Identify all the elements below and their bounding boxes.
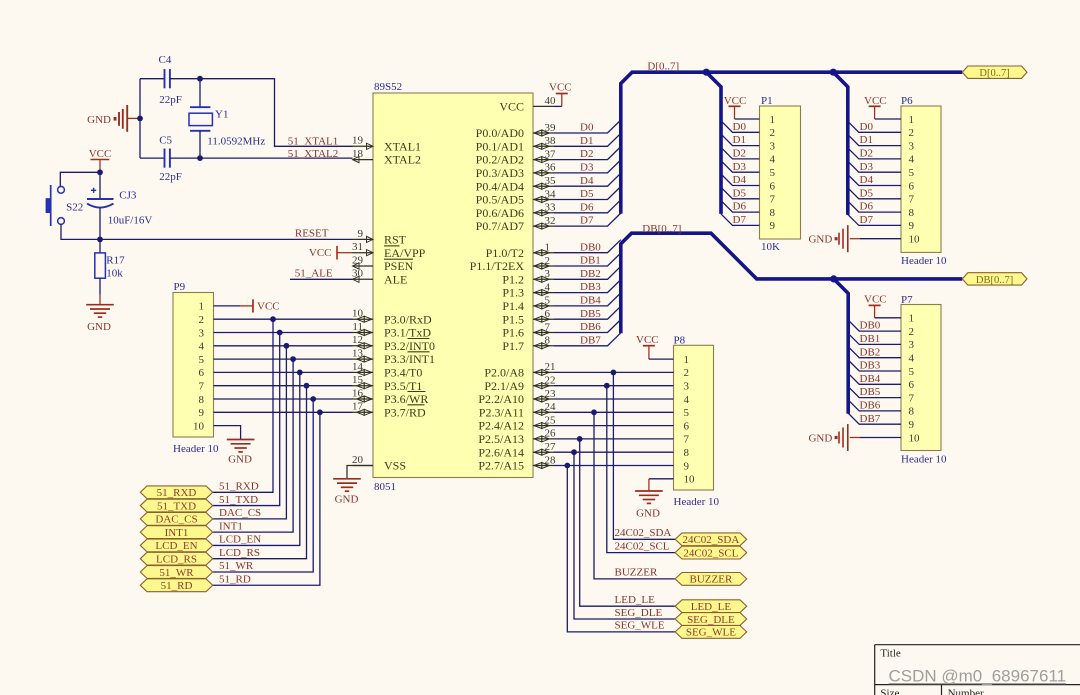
svg-text:DB4: DB4	[580, 295, 601, 307]
pin 6 P1.5	[502, 308, 554, 326]
svg-text:P2.3/A11: P2.3/A11	[479, 405, 524, 419]
bus DB[0..7] main	[621, 233, 963, 333]
svg-text:39: 39	[545, 122, 557, 134]
svg-text:D7: D7	[580, 215, 594, 227]
port flag LCD_RS	[140, 552, 212, 565]
svg-text:6: 6	[909, 379, 915, 391]
svg-text:7: 7	[770, 194, 776, 206]
svg-text:22: 22	[545, 375, 556, 387]
wire D0 bus entry to P1 pin 2	[721, 121, 760, 133]
junction VCC/CJ3/S22	[97, 169, 103, 175]
wire P7 pin 10 to ground	[860, 437, 901, 439]
svg-text:27: 27	[545, 441, 557, 453]
svg-text:8: 8	[545, 335, 551, 347]
connector P9 body	[173, 281, 219, 455]
svg-text:22pF: 22pF	[159, 171, 182, 183]
svg-text:S22: S22	[66, 202, 83, 214]
svg-text:INT1: INT1	[219, 520, 243, 532]
wire P9 pin 7 to MCU P3.5	[214, 385, 353, 387]
svg-text:D2: D2	[733, 148, 746, 160]
svg-text:4: 4	[909, 154, 915, 166]
wire D5 bus entry to P1 pin 7	[721, 187, 760, 199]
svg-text:9: 9	[909, 220, 915, 232]
pin 33 P0.6/AD6	[476, 202, 556, 220]
svg-text:RST: RST	[384, 233, 407, 247]
svg-text:12: 12	[352, 334, 363, 346]
pin 40 VCC	[499, 95, 556, 113]
svg-text:P3.3/INT1: P3.3/INT1	[384, 352, 435, 366]
svg-text:3: 3	[909, 339, 915, 351]
wire D4 from MCU P0.4 to bus	[554, 173, 621, 186]
svg-text:2: 2	[909, 127, 915, 139]
wire D7 from MCU P0.7 to bus	[554, 213, 621, 226]
wire D6 bus entry to P1 pin 8	[721, 201, 760, 213]
svg-text:6: 6	[545, 308, 551, 320]
capacitor CJ3	[87, 172, 152, 239]
capacitor C5	[140, 135, 182, 184]
svg-text:SEG_DLE: SEG_DLE	[687, 614, 735, 626]
svg-text:8051: 8051	[374, 481, 396, 493]
bus branch to P7	[834, 279, 849, 414]
svg-text:P2.6/A14: P2.6/A14	[478, 445, 524, 459]
svg-text:P0.7/AD7: P0.7/AD7	[476, 219, 524, 233]
svg-text:P0.4/AD4: P0.4/AD4	[476, 179, 524, 193]
svg-text:29: 29	[352, 254, 364, 266]
svg-text:DB6: DB6	[860, 400, 881, 412]
wire P9 pin 4 to MCU P3.2	[214, 345, 353, 347]
wire DB4 bus entry to P7 pin 6	[848, 373, 901, 384]
svg-text:P3.1/TxD: P3.1/TxD	[384, 326, 431, 340]
svg-text:10k: 10k	[106, 267, 123, 279]
wire P9 pin 2 to MCU P3.0	[214, 318, 353, 320]
svg-text:P1: P1	[761, 95, 773, 107]
svg-text:D7: D7	[733, 214, 747, 226]
svg-text:1: 1	[909, 114, 915, 126]
svg-text:3: 3	[909, 140, 915, 152]
svg-text:4: 4	[770, 154, 776, 166]
wire LCD_RS vertical	[213, 386, 307, 559]
pin 3 P1.2	[502, 268, 554, 286]
svg-text:P9: P9	[174, 281, 186, 293]
svg-text:4: 4	[199, 341, 205, 353]
port flag DAC_CS	[140, 512, 212, 525]
svg-text:DAC_CS: DAC_CS	[219, 507, 261, 519]
svg-text:35: 35	[545, 175, 557, 187]
svg-text:P1.0/T2: P1.0/T2	[486, 246, 524, 260]
svg-text:2: 2	[909, 326, 915, 338]
svg-text:21: 21	[545, 361, 556, 373]
svg-text:P3.4/T0: P3.4/T0	[384, 366, 422, 380]
wire D1 bus entry to P1 pin 3	[721, 134, 760, 146]
svg-text:11: 11	[352, 321, 363, 333]
svg-text:VCC: VCC	[499, 100, 524, 114]
wire LED_LE vertical	[580, 439, 675, 606]
svg-text:5: 5	[909, 167, 915, 179]
svg-text:DB2: DB2	[580, 268, 601, 280]
pin 2 P1.1/T2EX	[470, 255, 554, 273]
svg-text:38: 38	[545, 135, 557, 147]
wire 51_RD vertical	[213, 412, 320, 585]
wire D0 from MCU P0.0 to bus	[554, 120, 621, 133]
power VCC at P9 pin 1	[240, 299, 280, 312]
svg-text:24C02_SDA: 24C02_SDA	[615, 527, 672, 539]
svg-text:D7: D7	[860, 214, 874, 226]
svg-text:GND: GND	[808, 433, 832, 445]
svg-text:P0.1/AD1: P0.1/AD1	[476, 139, 524, 153]
wire XTAL2 from C5 to MCU	[170, 157, 353, 159]
svg-text:D5: D5	[860, 187, 874, 199]
svg-text:32: 32	[545, 215, 556, 227]
svg-text:DB7: DB7	[860, 413, 881, 425]
wire D3 bus entry to P6 pin 5	[848, 161, 901, 172]
pin 14 P3.4/T0	[352, 361, 422, 380]
power VCC at P1 pin 1	[724, 95, 760, 119]
svg-text:DB7: DB7	[580, 334, 601, 346]
svg-text:VCC: VCC	[257, 301, 280, 313]
pin 9 RST	[353, 228, 407, 247]
pin 16 P3.6/WR	[352, 387, 428, 406]
pin 36 P0.3/AD3	[476, 162, 556, 180]
svg-text:51_TXD: 51_TXD	[157, 500, 196, 512]
svg-text:C4: C4	[159, 54, 172, 66]
svg-text:P1.4: P1.4	[502, 299, 524, 313]
svg-text:51_TXD: 51_TXD	[219, 494, 258, 506]
junction P2 row to SEG_DLE	[571, 449, 577, 455]
svg-text:D1: D1	[860, 134, 873, 146]
wire D7 bus entry to P1 pin 9	[721, 214, 760, 226]
svg-text:D2: D2	[580, 148, 593, 160]
wire INT1 vertical	[213, 359, 293, 532]
pin 24 P2.3/A11	[479, 401, 556, 419]
svg-text:XTAL1: XTAL1	[384, 139, 421, 153]
svg-text:VSS: VSS	[384, 459, 406, 473]
junction P3.3 to INT1	[290, 356, 296, 362]
wire VCC junction to switch	[60, 172, 100, 187]
wire D7 bus entry to P6 pin 9	[848, 214, 901, 225]
svg-text:P0.5/AD5: P0.5/AD5	[476, 193, 524, 207]
wire D1 bus entry to P6 pin 3	[848, 135, 901, 146]
svg-text:GND: GND	[87, 321, 111, 333]
svg-text:8: 8	[684, 447, 690, 459]
svg-text:D0: D0	[580, 122, 594, 134]
svg-text:7: 7	[545, 321, 551, 333]
wire D5 bus entry to P6 pin 7	[848, 188, 901, 199]
junction C5/Y1 bottom	[197, 155, 203, 161]
wire DB0 bus entry to P7 pin 2	[848, 320, 901, 331]
ground GND at P6 pin 10	[808, 225, 860, 252]
svg-text:GND: GND	[87, 114, 111, 126]
overbar EA	[384, 245, 400, 247]
port flag 51_WR	[140, 566, 212, 579]
svg-text:LCD_RS: LCD_RS	[156, 554, 197, 566]
pin 7 P1.6	[502, 321, 554, 339]
junction P3.0 to 51_RXD	[270, 316, 276, 322]
svg-text:P1.7: P1.7	[502, 339, 524, 353]
wire DB1 from MCU P1.1 to bus	[554, 253, 621, 266]
wire P9 pin 1 to VCC	[214, 305, 241, 307]
svg-text:23: 23	[545, 388, 557, 400]
wire DB0 from MCU P1.0 to bus	[554, 240, 621, 253]
op-amp U1 89S52 MCU body	[373, 93, 533, 478]
power VCC at P8 pin 1	[636, 334, 674, 359]
ground GND below R17	[86, 295, 114, 333]
svg-text:CSDN @m0_68967611: CSDN @m0_68967611	[889, 667, 1067, 686]
svg-text:PSEN: PSEN	[384, 259, 414, 273]
svg-text:Number: Number	[948, 687, 984, 695]
svg-text:DB0: DB0	[860, 320, 881, 332]
wire DB6 from MCU P1.6 to bus	[554, 320, 621, 333]
wire 51_TXD vertical	[213, 333, 280, 506]
svg-text:P2.4/A12: P2.4/A12	[478, 419, 524, 433]
svg-text:SEG_WLE: SEG_WLE	[686, 627, 736, 639]
wire P2.3 to P8 pin 5	[554, 411, 674, 413]
connector P7 body	[901, 294, 947, 466]
pin 18 XTAL2	[352, 148, 421, 167]
junction P2 row to SEG_WLE	[564, 463, 570, 469]
pin 32 P0.7/AD7	[476, 215, 556, 233]
svg-text:10: 10	[909, 234, 921, 246]
wire P9 pin 5 to MCU P3.3	[214, 358, 353, 360]
port flag 24C02_SDA	[675, 533, 747, 546]
svg-text:Header 10: Header 10	[901, 255, 947, 267]
wire P9 pin 3 to MCU P3.1	[214, 332, 353, 334]
svg-text:51_RD: 51_RD	[219, 573, 251, 585]
svg-text:7: 7	[684, 434, 690, 446]
wire P2.2 to P8 pin 4	[554, 398, 674, 400]
svg-text:P1.1/T2EX: P1.1/T2EX	[470, 259, 525, 273]
overbar RD	[408, 404, 425, 406]
svg-text:GND: GND	[808, 234, 832, 246]
svg-text:3: 3	[770, 140, 776, 152]
wire P2.6 to P8 pin 8	[554, 451, 674, 453]
wire P2.7 to P8 pin 9	[554, 465, 674, 467]
junction P3.5 to LCD_RS	[304, 383, 310, 389]
svg-text:D0: D0	[733, 121, 747, 133]
port DB[0..7]	[962, 273, 1027, 286]
svg-text:37: 37	[545, 148, 557, 160]
overbar INT1	[408, 351, 430, 353]
svg-text:4: 4	[909, 353, 915, 365]
port flag LED_LE	[675, 600, 747, 613]
svg-text:INT1: INT1	[165, 527, 189, 539]
pin 5 P1.4	[502, 295, 554, 313]
svg-text:10: 10	[909, 432, 921, 444]
pin 34 P0.5/AD5	[476, 188, 556, 206]
svg-text:5: 5	[770, 167, 776, 179]
svg-text:51_WR: 51_WR	[219, 560, 254, 572]
svg-text:Title: Title	[880, 648, 901, 660]
svg-text:1: 1	[909, 313, 915, 325]
svg-text:P2.0/A8: P2.0/A8	[484, 366, 524, 380]
svg-text:D1: D1	[733, 134, 746, 146]
svg-text:9: 9	[358, 228, 364, 240]
svg-text:10: 10	[193, 420, 205, 432]
svg-text:24C02_SDA: 24C02_SDA	[682, 534, 739, 546]
svg-text:10uF/16V: 10uF/16V	[108, 215, 153, 227]
svg-text:D3: D3	[580, 162, 594, 174]
pin 1 P1.0/T2	[486, 242, 554, 260]
wire D1 from MCU P0.1 to bus	[554, 133, 621, 146]
svg-text:D0: D0	[860, 121, 874, 133]
svg-text:51_WR: 51_WR	[159, 567, 194, 579]
junction P3.2 to DAC_CS	[284, 343, 290, 349]
svg-text:DB1: DB1	[860, 333, 881, 345]
ground GND at P7 pin 10	[808, 424, 860, 451]
svg-text:1: 1	[545, 242, 551, 254]
connector P8 body	[674, 334, 720, 508]
svg-text:5: 5	[909, 366, 915, 378]
svg-text:LED_LE: LED_LE	[615, 594, 656, 606]
pin 29 PSEN	[352, 254, 414, 273]
overbar PSEN	[384, 258, 413, 260]
svg-text:DB2: DB2	[860, 346, 881, 358]
junction P3.6 to 51_WR	[310, 396, 316, 402]
pin 38 P0.1/AD1	[476, 135, 556, 153]
wire DB2 from MCU P1.2 to bus	[554, 266, 621, 279]
svg-text:SEG_WLE: SEG_WLE	[615, 620, 665, 632]
wire DB6 bus entry to P7 pin 8	[848, 400, 901, 411]
pin 39 P0.0/AD0	[476, 122, 556, 140]
svg-text:VCC: VCC	[864, 293, 887, 305]
wire DAC_CS vertical	[213, 346, 287, 519]
svg-text:3: 3	[545, 268, 551, 280]
wire P2.1 to P8 pin 3	[554, 385, 674, 387]
pin 37 P0.2/AD2	[476, 148, 556, 166]
svg-text:SEG_DLE: SEG_DLE	[615, 607, 663, 619]
capacitor C4	[140, 54, 200, 106]
svg-text:D6: D6	[733, 201, 747, 213]
svg-text:14: 14	[352, 361, 364, 373]
svg-text:34: 34	[545, 188, 557, 200]
svg-text:P0.6/AD6: P0.6/AD6	[476, 206, 524, 220]
pin 28 P2.7/A15	[478, 454, 556, 472]
svg-text:5: 5	[545, 295, 551, 307]
svg-text:9: 9	[770, 220, 776, 232]
power VCC at EA/VPP pin 31	[309, 246, 353, 260]
svg-text:2: 2	[199, 314, 205, 326]
pin 10 P3.0/RxD	[352, 308, 432, 327]
power VCC at P7 pin 1	[864, 293, 901, 317]
wire D5 from MCU P0.5 to bus	[554, 187, 621, 200]
power VCC at P6 pin 1	[864, 95, 901, 119]
port flag LCD_EN	[140, 539, 212, 552]
wire SEG_WLE vertical	[567, 466, 675, 632]
svg-text:Header 10: Header 10	[901, 454, 947, 466]
svg-text:26: 26	[545, 428, 557, 440]
wire P2.0 to P8 pin 2	[554, 371, 674, 373]
svg-text:D4: D4	[733, 174, 747, 186]
svg-text:P2.2/A10: P2.2/A10	[478, 392, 524, 406]
svg-text:51_XTAL1: 51_XTAL1	[288, 135, 338, 147]
svg-text:5: 5	[199, 354, 205, 366]
ground GND at VSS	[333, 479, 361, 506]
title block frame	[875, 645, 1080, 695]
wire DB7 from MCU P1.7 to bus	[554, 333, 621, 346]
svg-text:18: 18	[352, 148, 364, 160]
svg-text:GND: GND	[335, 494, 359, 506]
svg-text:9: 9	[684, 460, 690, 472]
svg-text:24C02_SCL: 24C02_SCL	[615, 540, 670, 552]
wire P9 pin 6 to MCU P3.4	[214, 371, 353, 373]
svg-text:7: 7	[199, 381, 205, 393]
bus branch to P6	[833, 72, 848, 215]
svg-text:6: 6	[684, 420, 690, 432]
junction P2 row to 24C02_SCL	[604, 383, 610, 389]
svg-text:3: 3	[684, 381, 690, 393]
wire D2 bus entry to P1 pin 4	[721, 147, 760, 159]
resistor R17	[95, 239, 125, 294]
svg-text:19: 19	[352, 135, 364, 147]
svg-text:10K: 10K	[761, 241, 780, 253]
wire top right corner to XTAL1	[200, 79, 353, 147]
svg-text:22pF: 22pF	[159, 94, 182, 106]
svg-text:D6: D6	[580, 201, 594, 213]
connector P6 body	[901, 95, 947, 267]
svg-text:D3: D3	[860, 161, 874, 173]
junction P3.7 to 51_RD	[317, 409, 323, 415]
svg-text:GND: GND	[636, 508, 660, 520]
port flag BUZZER	[675, 573, 747, 586]
pin 35 P0.4/AD4	[476, 175, 556, 193]
svg-text:31: 31	[352, 241, 363, 253]
svg-text:10: 10	[684, 474, 696, 486]
svg-text:D6: D6	[860, 201, 874, 213]
junction reset node	[97, 237, 103, 243]
svg-text:DB5: DB5	[580, 308, 601, 320]
svg-text:5: 5	[684, 407, 690, 419]
svg-text:2: 2	[684, 367, 690, 379]
pin 21 P2.0/A8	[484, 361, 555, 379]
svg-text:Header 10: Header 10	[674, 496, 720, 508]
watermark CSDN	[889, 667, 1067, 686]
svg-text:DB4: DB4	[860, 373, 881, 385]
svg-text:C5: C5	[159, 135, 172, 147]
bus branch to P1 pull-ups	[706, 72, 721, 214]
port flag SEG_WLE	[675, 626, 747, 639]
wire P9 pin 10 to ground	[214, 426, 241, 440]
svg-text:VCC: VCC	[309, 247, 332, 259]
svg-text:33: 33	[545, 202, 557, 214]
svg-text:6: 6	[770, 180, 776, 192]
svg-text:Size: Size	[880, 687, 899, 695]
wire 51_WR vertical	[213, 399, 314, 572]
junction P2 row to LED_LE	[577, 436, 583, 442]
svg-text:Y1: Y1	[215, 109, 228, 121]
wire VSS to ground	[347, 466, 373, 479]
svg-text:D1: D1	[580, 135, 593, 147]
wire P2.4 to P8 pin 6	[554, 425, 674, 427]
svg-text:28: 28	[545, 454, 557, 466]
svg-text:DB[0..7]: DB[0..7]	[976, 275, 1013, 286]
svg-text:D2: D2	[860, 148, 873, 160]
svg-text:51_RD: 51_RD	[161, 580, 193, 592]
pin 13 P3.3/INT1	[352, 348, 435, 367]
svg-text:DB5: DB5	[860, 386, 881, 398]
svg-text:LED_LE: LED_LE	[691, 601, 732, 613]
wire D6 bus entry to P6 pin 8	[848, 201, 901, 212]
wire 51_ALE	[290, 278, 353, 280]
crystal Y1	[189, 79, 265, 158]
svg-text:DB[0..7]: DB[0..7]	[642, 223, 681, 235]
junction bus DB to P7	[830, 275, 837, 282]
svg-text:11.0592MHz: 11.0592MHz	[207, 135, 265, 147]
svg-text:13: 13	[352, 348, 364, 360]
wire 51_RXD vertical	[213, 319, 273, 492]
svg-text:Header 10: Header 10	[173, 443, 219, 455]
svg-text:P6: P6	[901, 95, 913, 107]
svg-text:P3.5/T1: P3.5/T1	[384, 379, 422, 393]
svg-text:30: 30	[352, 268, 364, 280]
